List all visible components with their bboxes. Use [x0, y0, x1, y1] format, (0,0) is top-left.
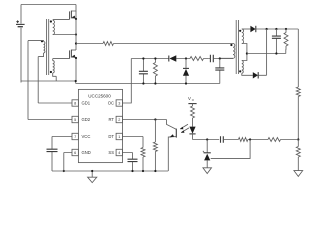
wire T2 primary bottom to Cr node [220, 57, 233, 59]
resistor feedback upper [268, 138, 281, 142]
wire T1 secA bottom to Q1 source rail [53, 34, 76, 36]
wire Q2 source down to ground line [75, 57, 77, 81]
node ground stem [91, 170, 93, 172]
phase dot T1 secondary B [50, 71, 52, 73]
node compensation to ref [249, 138, 251, 140]
diode D2 clamp (points up) [183, 59, 189, 84]
node feedback divider [297, 138, 299, 140]
wire Q1 source to SW rail [75, 11, 77, 19]
wire T1 secB bottom to Q2 source rail [53, 73, 57, 81]
resistor LED series [191, 106, 195, 118]
resistor output preload [284, 29, 288, 54]
wire center tap [242, 44, 247, 61]
wire output rail right [297, 29, 299, 87]
resistor Lr (resonant element) [103, 42, 114, 46]
resistor divider lower [296, 140, 300, 171]
wire OC pin 3 to sense line [123, 59, 132, 104]
wire TL431 ref loop [211, 140, 250, 159]
core T2 [236, 20, 238, 74]
node Vo label (text) [188, 96, 195, 102]
wire GD1 pin 8 [38, 102, 72, 104]
node output res top [285, 28, 287, 30]
resistor OC filter [153, 59, 157, 84]
capacitor compensation [221, 136, 224, 143]
node OC res bottom [154, 82, 156, 84]
svg-text:SS: SS [108, 150, 114, 155]
ground primary [88, 171, 97, 183]
resistor divider upper [296, 87, 300, 97]
node TL431 cathode tap [206, 138, 208, 140]
wire feedback line [193, 139, 299, 141]
diode D1 clamp (points left) [169, 55, 177, 62]
resistor RT [153, 120, 157, 172]
node Cr top [219, 57, 221, 59]
capacitor Cr resonant [215, 59, 224, 84]
wire Q1 drain from top rail [71, 5, 76, 12]
capacitor output filter [272, 29, 281, 54]
node SW to resonant tank [75, 42, 77, 44]
svg-text:8: 8 [74, 102, 76, 106]
winding T2 secondary top [242, 29, 244, 44]
wire SW to resonant inductor [76, 43, 103, 45]
battery VIN plus lead [20, 5, 22, 24]
node OC res top [154, 57, 156, 59]
svg-text:6: 6 [74, 151, 76, 155]
node output cap bottom [275, 52, 277, 54]
winding T1 primary [44, 42, 45, 54]
winding T1 secondary A (Q1 gate) [53, 20, 55, 34]
ground TL431 [203, 168, 212, 174]
capacitor OC sense series [208, 55, 215, 62]
capacitor VCC bypass [47, 137, 58, 172]
core T1 [47, 19, 49, 75]
node RT res at rail [154, 170, 156, 172]
svg-text:DT: DT [108, 134, 114, 139]
diode D3 rectifier top [242, 26, 256, 32]
transistor Q1 [70, 11, 76, 20]
wire T1 primary bottom jog [38, 53, 43, 57]
phase dot T2 secondary top [239, 30, 241, 32]
wire GD2 vertical [27, 41, 29, 120]
wire VCC pin 7 [52, 136, 72, 138]
phase dot T2 primary [230, 44, 232, 46]
svg-text:5: 5 [74, 118, 76, 122]
svg-text:7: 7 [74, 135, 76, 139]
node OC cap top [142, 57, 144, 59]
shunt regulator TL431 [203, 140, 211, 168]
wire RT pin 2 [123, 119, 167, 121]
node RT resistor tap [154, 118, 156, 120]
capacitor SS [128, 159, 138, 171]
opto light arrows [180, 124, 189, 133]
node Q2 source [75, 57, 77, 59]
op-amp U1 UCC25600 body [78, 89, 122, 162]
wire OC line [131, 58, 233, 60]
phase dot T1 primary [41, 40, 43, 42]
node SS cap at rail [131, 170, 133, 172]
wire GD2 pin 5 [28, 119, 72, 121]
winding T1 secondary B (Q2 gate) [53, 61, 55, 73]
svg-text:1: 1 [118, 135, 120, 139]
wire bottom ground rail [52, 170, 168, 172]
wire Q2 drain stub [71, 49, 76, 51]
node GND at bottom rail [63, 170, 65, 172]
node output cap top [275, 28, 277, 30]
node Q1 source [75, 18, 77, 20]
wire DT pin 1 [123, 137, 144, 148]
node Q2 source at ground line [75, 80, 77, 82]
node OC cap bottom [142, 82, 144, 84]
node OC diode junction [185, 57, 187, 59]
diode opto LED [189, 118, 195, 140]
svg-text:RT: RT [108, 117, 114, 122]
wire T1 primary top to GD2 vertical [28, 40, 44, 43]
wire battery minus lead down to primary ground line [20, 28, 22, 83]
svg-text:4: 4 [118, 151, 120, 155]
pin boxes and labels U1 (text) [74, 101, 120, 156]
wire output positive line [256, 28, 298, 30]
winding T2 secondary bottom [242, 61, 244, 74]
wire D4 cathode up to output line [258, 29, 266, 75]
svg-text:3: 3 [118, 102, 120, 106]
terminal Vo [188, 104, 196, 106]
wire GND pin 6 [64, 153, 72, 172]
phase dot T1 secondary A [50, 20, 52, 22]
wire Q1 gate line to winding [53, 18, 70, 20]
wire resonant inductor to T2 primary top [114, 43, 234, 45]
svg-text:GND: GND [82, 150, 91, 155]
phase dot T2 secondary bottom [239, 70, 241, 72]
wire divider middle [297, 97, 299, 140]
svg-text:V: V [188, 96, 191, 101]
capacitor OC filter [139, 59, 148, 84]
battery VIN symbol [16, 24, 25, 26]
wire top rail from battery+ to Q1 drain [21, 4, 76, 6]
svg-text:GD1: GD1 [82, 101, 91, 106]
op-amp U1 UCC25600 body (text) [88, 93, 111, 98]
battery plus sign [16, 20, 19, 23]
wire primary ground line [21, 81, 220, 84]
node rectifier join [266, 28, 268, 30]
wire SW rail between Q1 and Q2 [75, 19, 77, 50]
wire GD1 vertical [37, 57, 39, 103]
wire Q2 gate line to winding [53, 59, 70, 61]
optocoupler phototransistor [167, 120, 177, 172]
wire center tap line to output return [247, 53, 286, 55]
node center tap [246, 52, 248, 54]
svg-text:2: 2 [118, 118, 120, 122]
node DT res at rail [142, 170, 144, 172]
resistor compensation [238, 138, 248, 142]
node D2 anode ground [185, 82, 187, 84]
svg-text:GD2: GD2 [82, 117, 91, 122]
svg-text:UCC25600: UCC25600 [88, 93, 111, 98]
diode D4 rectifier bottom [242, 72, 258, 78]
svg-text:VCC: VCC [82, 134, 91, 139]
resistor OC sense series [190, 57, 204, 61]
resistor DT [141, 148, 145, 172]
winding T2 primary [233, 44, 235, 59]
transistor Q2 [70, 50, 76, 59]
pin boxes and labels U1 [72, 100, 123, 156]
svg-text:OC: OC [108, 101, 114, 106]
wire SS pin 4 [123, 153, 133, 159]
ground secondary divider [294, 171, 303, 177]
node SW winding return [75, 33, 77, 35]
